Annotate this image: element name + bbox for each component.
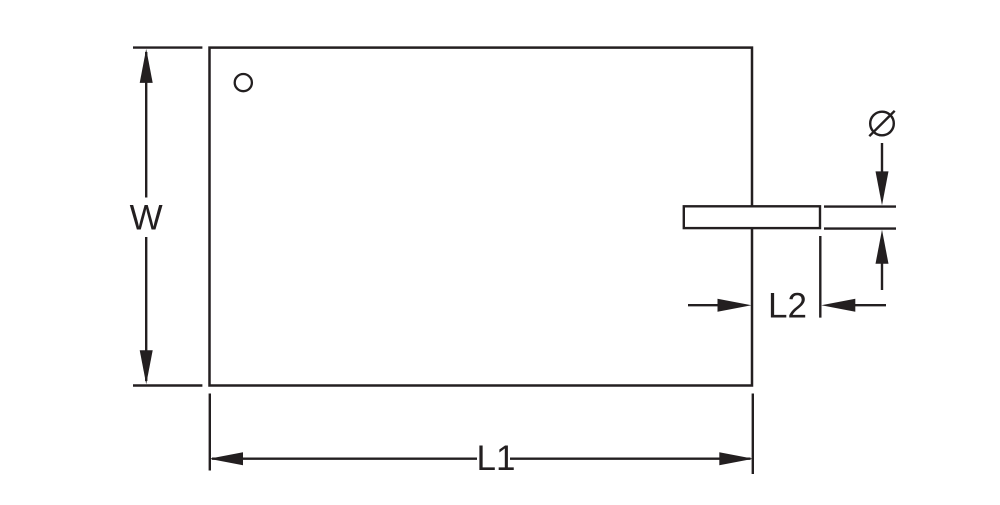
W dimension line lower segment — [145, 237, 147, 381]
diameter top extension line — [824, 205, 896, 207]
L2 left arrow (points right) — [718, 299, 752, 312]
L1 dimension line right segment — [510, 458, 751, 460]
L2 left leader line — [688, 304, 722, 306]
L2 right arrow (points left) — [821, 299, 855, 312]
tab (right side pin) — [684, 206, 820, 228]
svg-text:W: W — [130, 199, 163, 238]
L1 left extension line — [209, 394, 211, 471]
W top extension line — [133, 46, 202, 48]
svg-text:L2: L2 — [768, 287, 807, 326]
diameter symbol slash — [869, 111, 894, 136]
diameter lower arrow (points up) — [876, 230, 889, 264]
W dimension line upper segment — [145, 52, 147, 198]
L1 right extension line — [752, 394, 754, 475]
hole (top-left pilot hole) — [235, 74, 252, 91]
L1 dimension line left segment — [212, 458, 477, 460]
svg-text:L1: L1 — [477, 439, 516, 478]
W arrow down — [140, 350, 153, 384]
L1 arrow left — [209, 452, 243, 465]
diameter upper arrow (points down) — [876, 171, 889, 205]
L1 arrow right — [719, 452, 753, 465]
L2 right leader line — [852, 304, 886, 306]
diameter leader line lower — [881, 258, 883, 290]
W arrow up — [140, 49, 153, 83]
diameter symbol circle — [870, 112, 894, 136]
diameter bottom extension line — [824, 227, 896, 229]
diameter leader line upper — [881, 143, 883, 178]
plate body outline — [210, 48, 753, 386]
L2 extension line — [819, 236, 821, 318]
W bottom extension line — [133, 384, 202, 386]
